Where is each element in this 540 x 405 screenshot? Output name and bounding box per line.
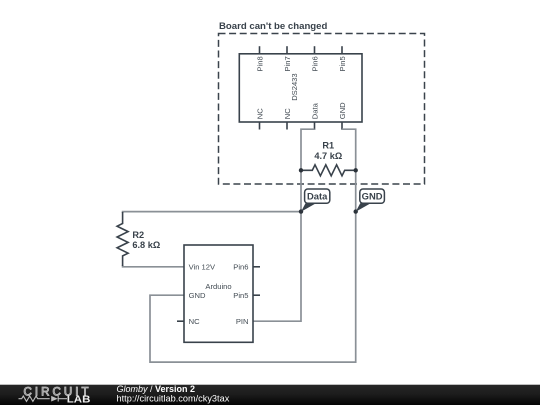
DS2433 pin 8 stub xyxy=(259,46,261,54)
wire: horizontal run from R2 top to Data junction xyxy=(123,212,301,213)
svg-text:Pin7: Pin7 xyxy=(283,56,292,71)
svg-text:Data: Data xyxy=(307,191,328,202)
wire: R2 bottom to Arduino Vin xyxy=(123,265,184,267)
svg-text:Data: Data xyxy=(310,102,319,119)
junction dot: GND flag attach xyxy=(354,209,358,213)
svg-text:NC: NC xyxy=(255,108,264,119)
net flag GND xyxy=(356,189,385,212)
svg-text:NC: NC xyxy=(283,108,292,119)
svg-text:Pin6: Pin6 xyxy=(233,263,248,272)
svg-text:NC: NC xyxy=(189,317,200,326)
DS2433 pin 5 stub xyxy=(341,46,343,54)
svg-text:LAB: LAB xyxy=(67,395,91,405)
svg-text:GND: GND xyxy=(362,191,383,202)
junction dot: Data flag attach xyxy=(299,209,303,213)
CircuitLab logo resistor-diode glyph xyxy=(19,396,50,401)
svg-text:Vin 12V: Vin 12V xyxy=(189,263,216,272)
svg-text:Pin6: Pin6 xyxy=(310,56,319,71)
svg-text:Pin5: Pin5 xyxy=(338,56,347,71)
svg-text:Board can't be changed: Board can't be changed xyxy=(219,21,328,32)
svg-text:6.8 kΩ: 6.8 kΩ xyxy=(132,240,160,250)
DS2433 pin NC-2 stub xyxy=(286,122,288,130)
Arduino pin NC stub xyxy=(177,320,184,322)
svg-text:R2: R2 xyxy=(132,230,144,240)
svg-text:DS2433: DS2433 xyxy=(290,73,299,100)
svg-text:PIN: PIN xyxy=(236,317,249,326)
junction dot: R1 right / GND net xyxy=(354,168,358,172)
wire: Data pin jog to vertical net xyxy=(301,129,315,170)
svg-text:Pin5: Pin5 xyxy=(233,291,248,300)
DS2433 pin GND stub xyxy=(341,122,343,130)
resistor R2 body xyxy=(117,212,128,266)
DS2433 pin NC-1 stub xyxy=(259,122,261,130)
dashed boundary box (board outline) xyxy=(219,34,425,185)
svg-text:Arduino: Arduino xyxy=(205,282,231,291)
footer bar xyxy=(0,385,540,405)
IC U1 DS2433 body xyxy=(239,54,362,122)
Arduino module body xyxy=(184,245,253,342)
svg-text:R1: R1 xyxy=(322,140,334,150)
svg-text:Pin8: Pin8 xyxy=(255,56,264,71)
junction dot: R1 left / Data net xyxy=(299,168,303,172)
resistor R1 body xyxy=(301,165,356,176)
net flag Data xyxy=(301,189,330,212)
footer group xyxy=(0,384,540,405)
svg-text:GND: GND xyxy=(338,102,347,119)
Arduino pin Pin5 stub xyxy=(253,294,260,296)
DS2433 pin 6 stub xyxy=(314,46,316,54)
DS2433 pin Data stub xyxy=(314,122,316,130)
wire: GND pin jog to vertical net xyxy=(342,129,356,170)
svg-text:http://circuitlab.com/cky3tax: http://circuitlab.com/cky3tax xyxy=(117,394,230,404)
Arduino pin Pin6 stub xyxy=(253,266,260,268)
wire: GND net vertical down to bottom run xyxy=(150,170,356,362)
DS2433 pin 7 stub xyxy=(286,46,288,54)
svg-text:GND: GND xyxy=(189,291,206,300)
wire: Data net vertical (R1 left to flag junction to Arduino PIN) xyxy=(253,170,301,321)
svg-text:4.7 kΩ: 4.7 kΩ xyxy=(314,151,342,161)
